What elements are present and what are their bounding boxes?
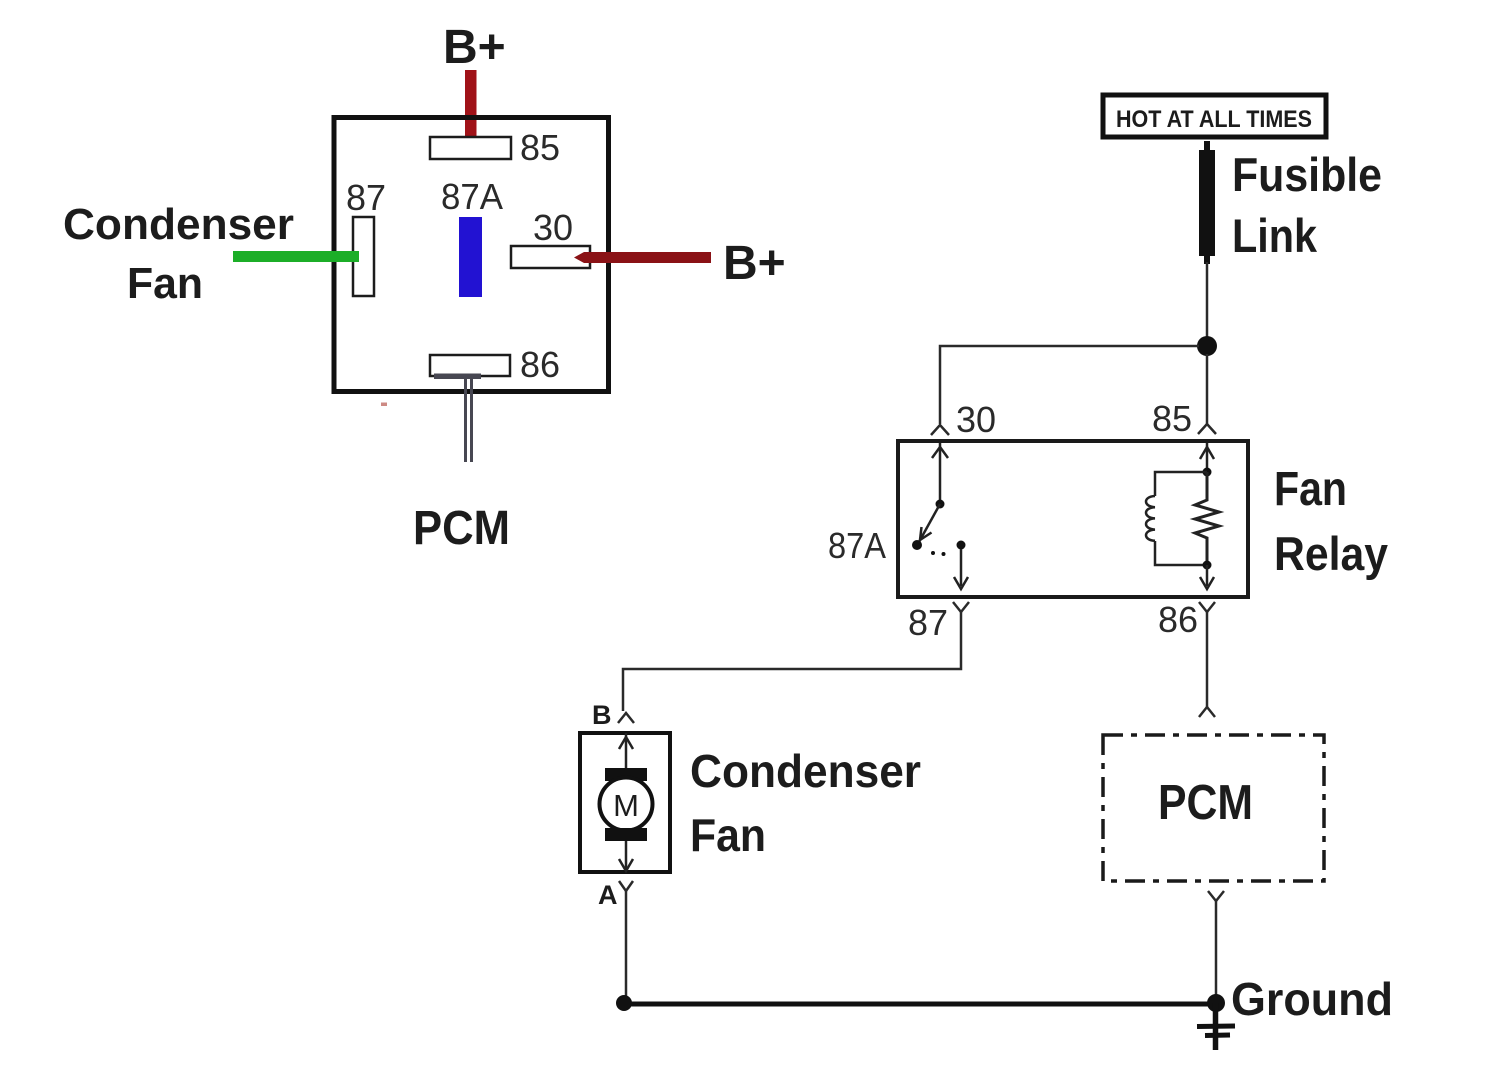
M label xyxy=(613,788,639,823)
wire contact 87 down with down arrow xyxy=(954,549,968,589)
label 85 (fan relay) xyxy=(1152,398,1192,439)
wire A to ground bus xyxy=(625,891,628,1001)
green wire Condenser Fan to pin 87 xyxy=(233,251,359,262)
label A xyxy=(598,880,618,910)
switch blade top dot xyxy=(936,500,945,509)
pin 85 xyxy=(430,137,511,159)
stray red mark xyxy=(381,403,387,407)
svg-text:86: 86 xyxy=(1158,599,1198,640)
Condenser Fan label (bottom) xyxy=(690,745,921,861)
svg-text:Condenser: Condenser xyxy=(690,745,921,797)
contact 87 dot xyxy=(957,541,966,550)
svg-text:Fan: Fan xyxy=(690,809,766,861)
svg-text:87A: 87A xyxy=(441,176,503,217)
motor lead top with up arrow xyxy=(619,733,633,768)
chevron below PCM xyxy=(1208,891,1224,901)
wire pin 86 to PCM (gray pair) xyxy=(434,374,481,463)
fusible link xyxy=(1204,141,1210,264)
svg-text:86: 86 xyxy=(520,344,560,385)
Fan Relay label xyxy=(1274,463,1388,580)
Fusible Link label xyxy=(1232,148,1382,262)
relay coil (left branch) xyxy=(1146,472,1207,565)
svg-text:87: 87 xyxy=(908,602,948,643)
svg-text:PCM: PCM xyxy=(1158,776,1253,830)
svg-text:Fusible: Fusible xyxy=(1232,148,1382,201)
wire PCM to ground xyxy=(1215,901,1218,1001)
pin 30 xyxy=(511,246,590,268)
PCM dashed box xyxy=(1103,735,1324,881)
svg-text:85: 85 xyxy=(1152,398,1192,439)
svg-text:Condenser: Condenser xyxy=(63,200,294,249)
svg-text:Relay: Relay xyxy=(1274,527,1388,580)
wire junction to relay pin 30 xyxy=(940,346,1199,424)
svg-text:A: A xyxy=(598,880,618,910)
ground node right xyxy=(1207,994,1225,1012)
svg-text:B: B xyxy=(592,700,612,730)
label 87 (fan relay) xyxy=(908,602,948,643)
HOT AT ALL TIMES box xyxy=(1103,95,1326,137)
chevron at A xyxy=(619,881,633,891)
wire pin 87 to condenser fan B xyxy=(623,612,961,711)
wire coil to pin 86 with down arrow xyxy=(1200,565,1214,589)
svg-text:85: 85 xyxy=(520,127,560,168)
HOT AT ALL TIMES text xyxy=(1116,106,1312,133)
svg-text:Fan: Fan xyxy=(1274,463,1347,516)
wire fusible link to junction xyxy=(1206,262,1209,340)
switch common wire from pin 30 with up arrow xyxy=(932,443,948,503)
svg-text:B+: B+ xyxy=(443,21,506,74)
chevron at pin 86 xyxy=(1199,602,1215,612)
chevron at pin 87 xyxy=(953,602,969,612)
fan relay box xyxy=(898,441,1248,597)
pin 87A label xyxy=(441,176,503,217)
pin 87A blue xyxy=(459,217,482,297)
motor brush cap bottom xyxy=(605,828,647,841)
svg-text:M: M xyxy=(613,788,639,823)
motor lead bottom with down arrow xyxy=(619,841,633,871)
coil bottom node xyxy=(1203,561,1212,570)
PCM label (right) xyxy=(1158,776,1253,830)
wire junction to relay pin 85 xyxy=(1206,354,1209,424)
motor circle xyxy=(600,778,653,831)
motor brush cap top xyxy=(605,768,647,781)
coil top node xyxy=(1203,468,1212,477)
label 87A (fan relay) xyxy=(828,525,886,566)
pin 85 label xyxy=(520,127,560,168)
switch blade with arrowhead xyxy=(919,504,940,542)
svg-text:Link: Link xyxy=(1232,209,1318,262)
ground symbol xyxy=(1197,1003,1235,1050)
contact 87A dot xyxy=(912,540,922,550)
label 86 (fan relay) xyxy=(1158,599,1198,640)
wire B+ to pin 85 (dark red) xyxy=(465,70,477,152)
ground bus wire xyxy=(624,1002,1216,1007)
svg-text:87: 87 xyxy=(346,177,386,218)
svg-text:B+: B+ xyxy=(723,237,786,290)
chevron at pin 30 xyxy=(931,425,949,435)
relay connector box xyxy=(334,118,609,392)
wire pin 85 into box with up arrow xyxy=(1200,443,1214,470)
junction node xyxy=(1197,336,1217,356)
chevron at pin 85 xyxy=(1198,424,1216,434)
svg-text:30: 30 xyxy=(533,207,573,248)
pin 87 label xyxy=(346,177,386,218)
Ground label xyxy=(1231,973,1393,1025)
pin 86 label xyxy=(520,344,560,385)
label B+ top xyxy=(443,21,506,74)
pin 86 xyxy=(430,355,510,376)
svg-text:30: 30 xyxy=(956,399,996,440)
label B+ right xyxy=(723,237,786,290)
label Condenser Fan (left) xyxy=(63,200,294,308)
svg-text:87A: 87A xyxy=(828,525,886,566)
svg-text:PCM: PCM xyxy=(413,502,510,555)
tiny dots between contacts xyxy=(931,551,946,556)
svg-text:HOT AT ALL TIMES: HOT AT ALL TIMES xyxy=(1116,106,1312,133)
ground node left xyxy=(616,995,632,1011)
wire 86 from relay to PCM xyxy=(1199,612,1215,717)
label 30 (fan relay) xyxy=(956,399,996,440)
svg-text:Fan: Fan xyxy=(127,259,203,308)
pin 30 label xyxy=(533,207,573,248)
svg-text:Ground: Ground xyxy=(1231,973,1393,1025)
label PCM (left diagram) xyxy=(413,502,510,555)
wire pin 30 to B+ right (dark red) xyxy=(574,252,711,263)
condenser fan box xyxy=(580,733,670,872)
pin 87 xyxy=(353,217,374,296)
chevron at B xyxy=(618,713,634,723)
label B xyxy=(592,700,612,730)
resistor (right branch) xyxy=(1195,472,1219,565)
